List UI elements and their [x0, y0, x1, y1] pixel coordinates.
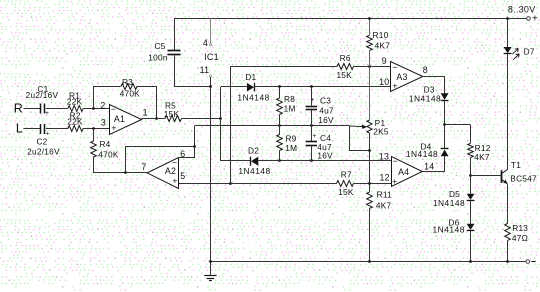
diode D3 — [441, 93, 449, 100]
wire base node to T1 — [471, 175, 502, 177]
svg-text:D1: D1 — [245, 72, 256, 82]
wire R5 to rectifier node — [182, 118, 222, 120]
svg-text:4u7: 4u7 — [319, 105, 334, 115]
svg-text:+: + — [312, 133, 316, 140]
wire A2 pin5 line — [179, 183, 232, 185]
wire reference vertical — [230, 66, 232, 183]
wire R2 to A1 pin 3 — [83, 128, 110, 130]
wire R4 bottom to A2 output — [94, 157, 148, 173]
resistor R10 — [369, 18, 371, 35]
junction pin5-R7 node — [229, 182, 232, 185]
svg-text:R13: R13 — [512, 223, 528, 233]
wire D1 line left — [221, 86, 247, 88]
svg-text:R3: R3 — [122, 77, 133, 87]
svg-text:10: 10 — [379, 77, 389, 87]
svg-text:3: 3 — [101, 117, 106, 127]
svg-text:22K: 22K — [67, 116, 83, 126]
junction pin2 node — [92, 107, 95, 110]
diode D2 — [250, 157, 252, 166]
wire D4 to A4 output — [423, 157, 445, 172]
wire OR node down to D4 — [444, 125, 446, 149]
junction R10-P1 node — [368, 65, 371, 68]
wire R7 to A4 pin 12 — [354, 183, 392, 185]
svg-text:1N4148: 1N4148 — [238, 166, 270, 176]
junction C3 top — [310, 85, 313, 88]
svg-text:22K: 22K — [67, 97, 83, 107]
svg-text:8..30V: 8..30V — [508, 5, 536, 15]
svg-text:470K: 470K — [98, 149, 119, 159]
junction C5-ground — [209, 85, 212, 88]
resistor R11 — [369, 183, 371, 192]
wire A1 output to R5 — [142, 118, 165, 120]
svg-text:R9: R9 — [285, 133, 296, 143]
resistor R8 — [279, 87, 281, 98]
svg-text:2u2/16V: 2u2/16V — [27, 147, 60, 157]
svg-text:13: 13 — [379, 152, 389, 162]
svg-text:1N4148: 1N4148 — [409, 94, 441, 104]
wire A1 pin3 down to R4 — [93, 129, 95, 141]
junction D7 rail — [506, 17, 509, 20]
wire D1 to A3 pin 10 — [254, 86, 391, 88]
svg-text:4: 4 — [203, 38, 208, 48]
wire P1 top lead — [369, 66, 371, 120]
svg-text:BC547: BC547 — [510, 173, 537, 183]
capacitor C5 — [168, 50, 181, 52]
svg-text:1N4148: 1N4148 — [433, 198, 465, 208]
svg-text:1N4148: 1N4148 — [237, 92, 269, 102]
ground symbol — [210, 262, 212, 275]
capacitor C4 — [311, 125, 313, 141]
svg-text:11: 11 — [200, 65, 210, 75]
svg-text:16V: 16V — [317, 150, 333, 160]
resistor R3 — [121, 84, 137, 90]
svg-text:4K7: 4K7 — [375, 40, 391, 50]
transistor T1 — [501, 170, 503, 183]
svg-text:2u2/16V: 2u2/16V — [26, 90, 59, 100]
wire D2 to A4 pin 13 — [258, 160, 391, 162]
wire C5 branch from rail — [174, 19, 176, 51]
svg-text:R11: R11 — [377, 190, 392, 200]
svg-text:1M: 1M — [285, 143, 297, 153]
junction R10 rail — [368, 17, 371, 20]
resistor R1 — [68, 106, 83, 112]
wire R6 line — [231, 66, 337, 68]
resistor R2 — [68, 126, 83, 132]
op-amp A3 — [391, 62, 423, 92]
junction D6 ground — [469, 260, 472, 263]
junction R3-output — [155, 117, 158, 120]
wire R to C1 — [23, 108, 40, 110]
junction R13 ground — [506, 260, 509, 263]
diode D1 — [247, 83, 254, 92]
wire C1 to R1 — [46, 108, 68, 110]
svg-text:1N4148: 1N4148 — [406, 149, 438, 159]
svg-text:15K: 15K — [336, 70, 352, 80]
svg-text:R: R — [14, 102, 23, 116]
svg-text:+: + — [172, 175, 177, 185]
wire feedback to output — [126, 147, 195, 173]
wire R7 line — [231, 183, 337, 185]
wire R6 to A3 pin 9 — [354, 66, 391, 68]
svg-text:12: 12 — [379, 172, 389, 182]
capacitor C2 — [40, 124, 42, 134]
capacitor C1 — [40, 104, 42, 114]
resistor R13 — [505, 224, 511, 241]
junction P1 bottom — [368, 149, 371, 152]
wire D2 line left — [221, 160, 251, 162]
junction feedback node — [193, 145, 196, 148]
svg-text:+: + — [45, 110, 49, 117]
svg-text:D7: D7 — [524, 46, 535, 56]
wire C2 to R2 — [46, 128, 68, 130]
svg-text:−: − — [111, 104, 116, 114]
svg-text:9: 9 — [382, 56, 387, 66]
op-amp A4 — [392, 157, 423, 187]
svg-text:100n: 100n — [148, 53, 168, 63]
wire A2 pin6 link — [179, 126, 195, 158]
svg-text:1: 1 — [143, 108, 148, 118]
svg-text:D2: D2 — [248, 145, 259, 155]
diode D5 — [470, 176, 472, 194]
svg-text:470K: 470K — [120, 89, 141, 99]
svg-text:R4: R4 — [99, 139, 110, 149]
resistor R12 — [470, 125, 472, 144]
svg-text:R7: R7 — [341, 170, 352, 180]
junction R9 bottom — [278, 159, 281, 162]
wire ground vertical — [210, 77, 212, 262]
resistor R4 — [91, 141, 97, 157]
svg-text:4K7: 4K7 — [376, 200, 392, 210]
svg-text:2: 2 — [100, 100, 105, 110]
terminal minus — [526, 260, 530, 264]
wire D3 to OR node — [444, 100, 446, 125]
svg-text:7: 7 — [141, 162, 146, 172]
svg-text:15K: 15K — [338, 187, 354, 197]
resistor R7 — [337, 181, 354, 187]
wire C5 bottom to ground vertical — [175, 56, 211, 87]
svg-text:5: 5 — [180, 171, 185, 181]
junction mid R8R9 — [278, 124, 281, 127]
capacitor C3 — [311, 87, 313, 106]
svg-text:−: − — [393, 156, 398, 166]
IC1 pin 4 stub — [210, 18, 212, 44]
svg-text:C2: C2 — [36, 137, 47, 147]
svg-text:−: − — [392, 63, 397, 73]
junction pin3 node — [92, 127, 95, 130]
svg-text:IC1: IC1 — [204, 52, 219, 62]
junction C4 bottom — [310, 159, 313, 162]
svg-text:16V: 16V — [318, 115, 334, 125]
svg-text:A1: A1 — [114, 114, 125, 124]
wire T1 emitter down — [507, 184, 509, 223]
diode D4 — [441, 148, 449, 150]
svg-text:+: + — [310, 97, 314, 104]
junction R11 ground — [368, 260, 371, 263]
wire OR node to R12 — [445, 124, 471, 126]
svg-text:47Ω: 47Ω — [512, 233, 528, 243]
junction base node — [469, 174, 472, 177]
diode D6 — [470, 200, 472, 224]
svg-text:2K5: 2K5 — [373, 126, 389, 136]
potentiometer P1 — [367, 120, 372, 133]
wire D7 anode to rail — [507, 18, 509, 47]
svg-text:C5: C5 — [154, 41, 165, 51]
resistor R5 — [165, 116, 182, 122]
svg-text:1N4148: 1N4148 — [433, 225, 465, 235]
svg-text:R10: R10 — [373, 30, 389, 40]
svg-text:R6: R6 — [340, 53, 351, 63]
svg-text:+: + — [532, 14, 538, 25]
wire +V top rail — [174, 18, 527, 20]
resistor R9 — [279, 125, 281, 134]
svg-text:A2: A2 — [165, 166, 176, 176]
wire T1 collector up — [507, 53, 509, 169]
wire L to C2 — [23, 128, 40, 130]
svg-text:+: + — [392, 176, 397, 186]
junction A2 feedback tap — [124, 171, 127, 174]
svg-text:8: 8 — [423, 65, 428, 75]
junction R11 node — [368, 182, 371, 185]
diode D7 LED — [504, 47, 512, 53]
wire R1 to A1 pin 2 — [83, 108, 110, 110]
wire A3 output to D3 — [423, 77, 445, 94]
terminal +V — [527, 17, 531, 21]
svg-text:1M: 1M — [284, 103, 296, 113]
svg-text:4K7: 4K7 — [474, 152, 490, 162]
svg-text:T1: T1 — [511, 160, 521, 170]
op-amp A2 — [147, 158, 178, 189]
svg-text:A3: A3 — [396, 72, 407, 82]
svg-text:R8: R8 — [284, 94, 295, 104]
wire mid-rail line — [195, 125, 350, 127]
junction R8 top — [278, 85, 281, 88]
junction rectifier node — [219, 117, 222, 120]
wire R3 to A1 output — [137, 87, 157, 119]
wire D6 to ground — [470, 230, 472, 261]
junction OR node — [443, 123, 446, 126]
svg-text:C3: C3 — [320, 96, 331, 106]
resistor R6 — [337, 64, 354, 70]
svg-text:A4: A4 — [398, 167, 409, 177]
svg-text:L: L — [16, 122, 23, 136]
wire rectifier vertical — [220, 87, 222, 161]
wire pin2 node up to R3 — [94, 87, 121, 109]
op-amp A1 — [110, 105, 142, 135]
svg-text:14: 14 — [424, 162, 434, 172]
wire ground bottom rail — [210, 261, 526, 263]
svg-text:15K: 15K — [164, 109, 180, 119]
junction mid C3C4 — [310, 124, 313, 127]
